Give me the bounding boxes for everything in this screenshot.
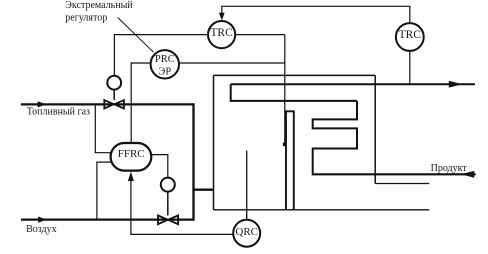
wire QRC to FFRC with up arrow (131, 179, 233, 234)
svg-text:Продукт: Продукт (431, 163, 468, 174)
furnace outlet lower lip (375, 183, 429, 185)
svg-text:PRC: PRC (155, 54, 175, 65)
wire FFRC air-flow tap (97, 162, 111, 220)
furnace left wall (213, 75, 215, 209)
arrow on air pipe (38, 217, 46, 223)
wire actuator stem to valve (113, 90, 115, 100)
controller QRC (233, 220, 260, 247)
arrow on fuel pipe (38, 101, 47, 107)
valve actuator (fuel) (107, 76, 121, 90)
valve (fuel gas) bowtie (104, 100, 114, 108)
controller FFRC (ratio) (111, 143, 152, 171)
wire TRC2 bottom stem to outlet line (409, 51, 411, 84)
air pipe (21, 218, 194, 220)
wire actuator stem to air valve (167, 192, 169, 216)
arrow into TRC1 top (221, 13, 223, 19)
wire PRC left down to FFRC top (131, 63, 151, 143)
valve (air) bowtie (158, 215, 168, 224)
controller PRC ЭР (extremal regulator) (151, 50, 179, 78)
product pipe with arrow left (312, 173, 476, 175)
mixture pipe into furnace (192, 189, 213, 191)
wire thermocouple riser (284, 35, 286, 144)
furnace top wall (214, 74, 376, 76)
wire top cascade line TRC2 to TRC1 (222, 6, 410, 22)
coil outlet line (top) with arrow right (231, 83, 475, 85)
coil serpentine (313, 101, 357, 173)
svg-text:FFRC: FFRC (118, 148, 145, 160)
annotation leader line (118, 18, 154, 53)
svg-text:Экстремальный: Экстремальный (65, 0, 133, 11)
mixture pipe vertical (192, 103, 194, 220)
coil top tube (231, 84, 357, 101)
controller TRC1 (208, 21, 235, 48)
wire QRC tap from firebox (246, 151, 248, 220)
wire PRC right to sensor riser (179, 62, 285, 64)
wire FFRC right to air valve actuator (151, 155, 168, 178)
svg-text:Топливный газ: Топливный газ (27, 106, 90, 117)
vertical tube in furnace (286, 111, 294, 210)
svg-text:TRC: TRC (399, 29, 422, 41)
wire FFRC fuel-flow tap (95, 104, 111, 152)
svg-text:регулятор: регулятор (65, 12, 107, 23)
wire TRC1 right to sensor riser (235, 34, 285, 36)
svg-text:ЭР: ЭР (158, 66, 171, 77)
node thermocouple dot (283, 143, 287, 147)
wire TRC1 left to fuel valve actuator (114, 35, 208, 76)
svg-text:TRC: TRC (210, 27, 233, 39)
valve actuator (air) (161, 178, 175, 192)
furnace bottom wall (214, 209, 430, 211)
furnace right wall (374, 75, 376, 183)
controller TRC2 (396, 23, 424, 51)
svg-text:QRC: QRC (235, 226, 258, 238)
svg-text:Воздух: Воздух (26, 224, 57, 235)
fuel gas pipe (21, 103, 194, 105)
